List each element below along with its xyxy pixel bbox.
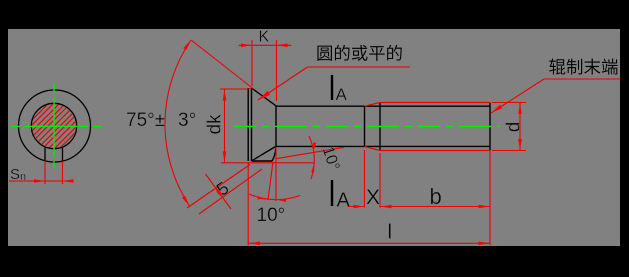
Sn extension line right [62,161,64,184]
l left extension [247,162,249,246]
b dimension line [380,206,490,208]
Sn extension line left [44,161,46,184]
K extension line left [251,40,253,86]
10deg-bottom arc [249,194,300,200]
75deg upper ray [191,40,253,89]
K extension line right [276,40,278,101]
nib side line left (end view) [44,147,46,161]
svg-text:75°±: 75°± [126,110,165,131]
svg-text:dk: dk [205,114,226,135]
l dimension line [248,242,490,244]
shank top edge [276,105,490,107]
svg-text:3°: 3° [178,110,196,131]
X extension right [379,153,381,208]
svg-text:K: K [259,29,270,46]
X dimension line [348,206,365,208]
5-dim second line [199,169,262,214]
d dimension line [519,103,521,151]
label: round-or-flat (Chinese) [317,45,401,61]
svg-text:A: A [337,190,351,212]
dk dimension line [224,90,226,163]
10deg-bottom vertical side [275,147,277,201]
d top extension [492,102,526,104]
5-dim dimension line [206,174,232,209]
75deg dimension arc [165,40,191,206]
b right extension [489,151,491,246]
d bottom extension [492,150,526,152]
end view vertical centerline [53,83,55,169]
10deg-bottom tilted side [268,162,273,201]
svg-text:b: b [430,184,442,209]
countersunk cone top edge [252,88,277,106]
leader arrow to rolled end [491,79,544,113]
10deg-rot arc [309,136,314,179]
svg-text:10°: 10° [257,205,286,226]
cone-shank junction line [275,106,277,147]
svg-text:X: X [366,186,380,209]
Sn dimension line [9,180,74,182]
head flat face line inner [251,88,253,161]
label: rolled-end (Chinese) [549,58,617,74]
head flat face line outer [247,88,249,161]
shank bottom edge [276,145,490,147]
nib right edge curve [272,148,276,162]
svg-text:l: l [388,222,392,244]
bolt end face [489,103,491,151]
leader arrow to head top [258,67,308,100]
K dimension line [239,44,292,46]
section line A bottom [331,180,333,206]
end view inner circle (shank/thread) [31,103,76,148]
main centerline [234,125,500,127]
thread runout slant bottom [365,146,381,150]
thread crest top line [380,102,490,104]
X extension left [364,150,366,208]
dk top extension [220,88,251,90]
full thread start line [379,103,381,151]
75deg lower ray [187,165,250,209]
end view horizontal centerline [11,125,101,127]
10deg-rot tilted line [276,147,344,158]
nib bottom flat [252,160,273,162]
countersunk cone bottom edge [252,147,276,162]
svg-text:A: A [336,85,348,104]
thread crest bottom line [380,150,490,152]
svg-text:d: d [504,122,525,133]
section line A top [331,75,333,100]
thread runout line [364,106,366,146]
end view outer circle (head diameter) [19,90,91,162]
nib side line right (end view) [62,147,64,161]
thread runout slant top [365,103,381,107]
dk bottom extension / 10deg reference line [221,162,315,164]
